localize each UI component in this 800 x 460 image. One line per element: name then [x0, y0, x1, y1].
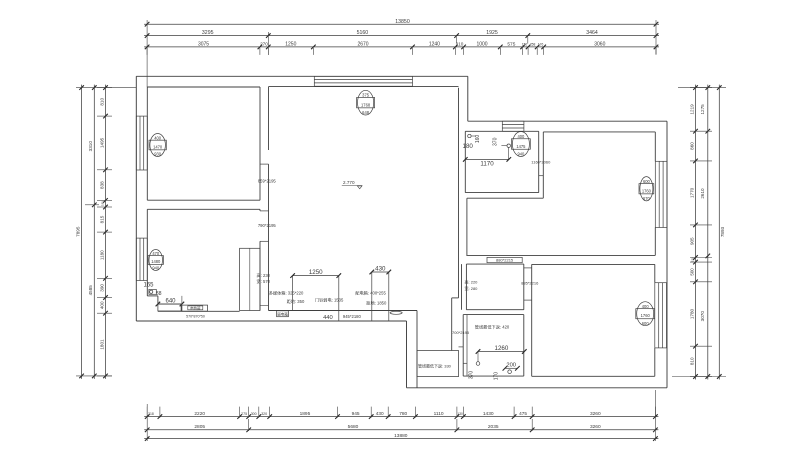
svg-text:470: 470 [152, 251, 160, 256]
svg-text:1760: 1760 [642, 188, 652, 193]
svg-text:1895: 1895 [300, 411, 311, 417]
svg-text:1000: 1000 [476, 42, 487, 48]
dim 1260 storage [476, 345, 527, 362]
svg-text:2220: 2220 [194, 411, 205, 417]
svg-text:13850: 13850 [395, 19, 410, 25]
svg-text:管线最低下返: 330: 管线最低下返: 330 [418, 363, 452, 369]
window label living [357, 90, 375, 115]
entry door caps [339, 311, 372, 322]
water heater cabinet [158, 304, 208, 318]
svg-text:600: 600 [643, 179, 651, 184]
svg-text:1770: 1770 [690, 187, 695, 198]
svg-text:2670: 2670 [357, 42, 368, 48]
dimension chain right [672, 85, 726, 380]
outer wall left [135, 76, 137, 321]
svg-text:170: 170 [494, 372, 500, 381]
svg-text:1170: 1170 [480, 161, 494, 168]
svg-text:475: 475 [519, 411, 527, 416]
svg-text:885*2216: 885*2216 [521, 281, 539, 286]
svg-text:1925: 1925 [486, 30, 498, 36]
window label bedroom1 [149, 134, 166, 157]
window kitchen top [502, 121, 524, 131]
svg-text:390: 390 [99, 284, 104, 292]
svg-text:电热阀: 电热阀 [190, 305, 201, 310]
svg-text:1260: 1260 [495, 345, 509, 352]
svg-text:1180: 1180 [99, 250, 104, 260]
svg-text:1801: 1801 [99, 339, 104, 350]
svg-text:640: 640 [165, 298, 176, 304]
svg-text:815: 815 [99, 215, 104, 223]
dimension chain left [76, 85, 137, 379]
svg-text:4585: 4585 [88, 285, 93, 296]
dim 200 storage [503, 363, 520, 371]
svg-text:7893: 7893 [720, 226, 725, 237]
svg-text:400: 400 [642, 304, 650, 309]
threshold oval entry [390, 311, 402, 314]
bedroom 4 bottom-right walls [532, 264, 655, 376]
svg-text:780: 780 [399, 411, 407, 417]
svg-text:2805: 2805 [194, 424, 205, 430]
svg-text:300: 300 [251, 412, 257, 416]
svg-text:258: 258 [530, 43, 536, 47]
door label bedroom3 box [487, 257, 522, 262]
window label bedroom2 [148, 250, 163, 271]
svg-text:400: 400 [517, 134, 525, 139]
outer wall bottom left [136, 320, 406, 322]
window living room top [314, 76, 412, 86]
note multimedia box [269, 290, 305, 304]
svg-text:2610: 2610 [700, 188, 705, 199]
svg-text:5160: 5160 [357, 30, 369, 36]
svg-text:570*870*50: 570*870*50 [186, 314, 205, 318]
svg-text:940: 940 [517, 152, 525, 157]
note distribution box [355, 290, 387, 306]
pipe point storage 1 [476, 362, 480, 366]
window bedroom2 left [136, 238, 147, 280]
weak current box [277, 311, 289, 317]
svg-text:多媒体箱: 325*220: 多媒体箱: 325*220 [269, 290, 304, 297]
svg-text:880*2215: 880*2215 [496, 258, 514, 263]
svg-text:1475: 1475 [516, 144, 526, 149]
svg-text:3260: 3260 [590, 411, 601, 417]
svg-text:管线最低下返: 420: 管线最低下返: 420 [475, 323, 510, 330]
kitchen door cap [539, 175, 544, 177]
svg-text:88: 88 [156, 291, 162, 297]
window bedroom3 right [655, 161, 667, 227]
svg-text:13880: 13880 [394, 433, 408, 439]
note wardrobe size [257, 272, 271, 285]
svg-text:600: 600 [642, 321, 650, 326]
svg-text:高: 220: 高: 220 [465, 278, 479, 284]
outer wall bottom step [406, 321, 408, 388]
svg-text:3060: 3060 [594, 42, 605, 48]
svg-text:1495: 1495 [99, 137, 104, 148]
svg-text:200: 200 [506, 363, 516, 369]
svg-text:176: 176 [538, 43, 544, 47]
svg-text:400: 400 [99, 301, 104, 309]
svg-text:180: 180 [463, 143, 474, 150]
svg-text:838: 838 [99, 181, 104, 189]
svg-text:距地: 350: 距地: 350 [287, 298, 305, 304]
svg-text:高: 230: 高: 230 [257, 272, 271, 279]
svg-text:距地: 1850: 距地: 1850 [366, 299, 387, 305]
bedroom 1 top-left walls [147, 87, 260, 200]
svg-text:1430: 1430 [483, 411, 494, 417]
svg-text:3295: 3295 [202, 30, 214, 36]
svg-text:700*2195: 700*2195 [452, 330, 470, 335]
svg-text:5680: 5680 [348, 424, 359, 430]
svg-text:440: 440 [323, 315, 333, 321]
dim 1170 kitchen [463, 148, 511, 168]
svg-text:648: 648 [362, 110, 370, 115]
svg-text:1275: 1275 [700, 104, 705, 115]
svg-text:930: 930 [154, 152, 162, 157]
svg-text:150: 150 [522, 43, 528, 47]
svg-text:宽: 280: 宽: 280 [465, 285, 479, 291]
svg-text:3070: 3070 [700, 311, 705, 322]
svg-text:配电箱: 400*255: 配电箱: 400*255 [355, 290, 386, 297]
svg-text:275: 275 [241, 412, 247, 416]
level mark living [342, 180, 363, 189]
svg-text:3310: 3310 [88, 141, 93, 152]
dim 1250 doorbell zone [290, 269, 341, 311]
svg-text:3464: 3464 [586, 30, 598, 36]
water point kitchen [501, 144, 510, 147]
outer wall bottom right [407, 387, 668, 389]
svg-text:1219: 1219 [690, 104, 695, 115]
bedroom 3 top-right walls [466, 132, 655, 256]
dimension chain top [144, 19, 659, 87]
svg-text:1480: 1480 [151, 259, 161, 264]
outer wall top of right wing [468, 120, 667, 122]
svg-text:905: 905 [690, 237, 695, 245]
outer wall right [666, 121, 668, 388]
outer wall top [136, 75, 468, 77]
svg-text:1160*2060: 1160*2060 [531, 160, 551, 165]
svg-text:945: 945 [352, 411, 360, 417]
svg-text:1240: 1240 [429, 42, 440, 48]
svg-text:弱电箱: 弱电箱 [277, 311, 288, 316]
svg-text:370: 370 [469, 371, 475, 380]
window label kitchen [512, 132, 531, 157]
living room walls [269, 87, 459, 388]
svg-text:门铃弱电: 1535: 门铃弱电: 1535 [315, 297, 344, 304]
svg-text:165: 165 [144, 282, 155, 288]
storage room walls [463, 315, 524, 377]
svg-text:859*2195: 859*2195 [258, 179, 277, 184]
svg-text:575: 575 [507, 42, 515, 48]
svg-text:3075: 3075 [198, 42, 209, 48]
svg-text:430: 430 [375, 265, 386, 272]
svg-text:2035: 2035 [488, 424, 499, 430]
bathroom walls [462, 264, 524, 310]
svg-text:430: 430 [376, 411, 384, 416]
svg-text:宽: 570: 宽: 570 [257, 278, 271, 285]
svg-text:1250: 1250 [285, 42, 296, 48]
door bedroom2 caps [260, 211, 269, 241]
svg-text:1780: 1780 [690, 308, 695, 319]
svg-text:945*2180: 945*2180 [343, 314, 362, 319]
svg-text:1470: 1470 [153, 144, 163, 149]
door bedroom1 cap [260, 163, 269, 165]
window label bedroom3 [639, 177, 654, 201]
svg-text:1250: 1250 [309, 269, 323, 276]
svg-text:860: 860 [690, 142, 695, 150]
svg-text:375: 375 [362, 93, 370, 98]
window bedroom4 right [655, 283, 667, 348]
svg-text:1110: 1110 [434, 411, 444, 417]
svg-text:1760: 1760 [641, 313, 651, 318]
wardrobe bedroom2 [240, 248, 269, 310]
svg-text:810: 810 [99, 98, 104, 106]
svg-text:400: 400 [154, 135, 162, 140]
svg-text:320: 320 [261, 412, 267, 416]
pipe shaft box [417, 351, 459, 377]
svg-text:130: 130 [457, 412, 463, 416]
svg-text:3260: 3260 [590, 424, 601, 430]
svg-text:500: 500 [690, 268, 695, 276]
svg-text:318: 318 [148, 412, 154, 416]
dimension chain bottom [144, 390, 658, 441]
svg-text:2.770: 2.770 [343, 180, 355, 185]
window bedroom1 left [136, 116, 147, 170]
gas point kitchen [468, 134, 476, 137]
svg-text:810: 810 [690, 357, 695, 365]
bathroom door caps [524, 268, 532, 300]
svg-text:180: 180 [100, 201, 104, 206]
storage door caps [459, 347, 468, 363]
svg-text:790*2195: 790*2195 [258, 223, 277, 228]
svg-text:940: 940 [152, 266, 160, 271]
pipe point storage 2 [508, 370, 512, 374]
svg-text:370: 370 [493, 137, 499, 146]
window label bedroom4 [636, 302, 655, 326]
dim 640 radiator [156, 296, 185, 306]
kitchen walls [465, 131, 538, 192]
note bathroom size [465, 278, 479, 290]
svg-text:1768: 1768 [361, 102, 371, 107]
svg-text:670: 670 [643, 196, 651, 201]
outer wall top-right step [467, 76, 469, 121]
bedroom 2 lower-left walls [147, 209, 260, 311]
svg-text:270: 270 [260, 42, 268, 47]
radiator valve bedroom2 [149, 289, 162, 297]
svg-text:7895: 7895 [76, 226, 81, 237]
dim 430 distribution box [370, 265, 392, 320]
